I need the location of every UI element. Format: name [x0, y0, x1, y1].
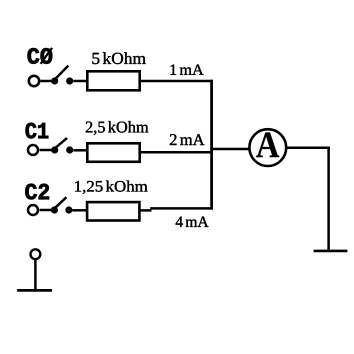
current label 1 mA	[171, 65, 204, 75]
switch C0 terminal circle	[29, 76, 39, 86]
wire	[73, 80, 88, 83]
wire	[40, 209, 52, 212]
current label 4 mA	[176, 217, 209, 227]
ammeter letter A	[256, 133, 279, 158]
switch C1 terminal circle	[28, 145, 38, 155]
value label 2,5 kOhm	[86, 121, 149, 135]
bus vertical wire	[210, 80, 213, 210]
label C1	[26, 123, 49, 139]
wire	[40, 149, 52, 152]
resistor R1 5 kOhm	[87, 71, 139, 90]
switch C1 contact dot right	[66, 146, 73, 153]
label C0	[28, 48, 53, 64]
resistor R2 2,5 kOhm	[87, 143, 139, 162]
ammeter U1 circle	[249, 129, 286, 166]
switch C0 blade	[56, 66, 69, 79]
common terminal circle bottom left	[31, 249, 41, 259]
switch C0 contact dot right	[66, 77, 73, 84]
ground right bar	[314, 250, 348, 253]
switch C1 blade	[56, 138, 68, 148]
resistor R3 1,25 kOhm	[87, 202, 139, 220]
wire	[73, 209, 89, 212]
ground left bar	[17, 289, 52, 292]
wire terminal to ground	[34, 259, 37, 290]
current label 2 mA	[170, 134, 205, 145]
wire ammeter to right	[286, 147, 330, 150]
switch C2 blade	[55, 197, 66, 208]
switch C1 contact dot left	[51, 146, 58, 153]
wire	[141, 80, 213, 83]
wire	[41, 80, 52, 83]
switch C0 contact dot left	[51, 77, 58, 84]
wire	[150, 207, 213, 210]
switch C2 terminal circle	[28, 205, 38, 215]
wire	[73, 149, 88, 152]
value label 1,25 kOhm	[75, 181, 148, 194]
wire	[141, 151, 213, 154]
switch C2 contact dot left	[51, 206, 58, 213]
label C2	[25, 184, 49, 200]
switch C2 contact dot right	[65, 206, 72, 213]
wire stub from resistor	[140, 209, 152, 212]
value label 5 kOhm	[92, 52, 145, 64]
wire down to ground	[327, 148, 330, 250]
wire bus to ammeter	[210, 148, 249, 151]
